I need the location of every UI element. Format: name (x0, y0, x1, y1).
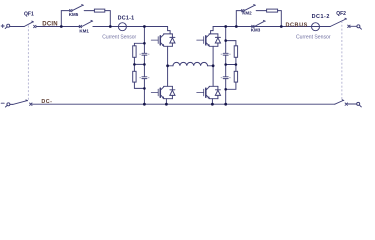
svg-text:KM1: KM1 (79, 29, 89, 34)
svg-text:DCBUS: DCBUS (286, 22, 308, 28)
svg-text:QF2: QF2 (336, 11, 346, 17)
svg-text:DC1-1: DC1-1 (118, 15, 135, 21)
svg-text:Current Sensor: Current Sensor (296, 35, 331, 41)
svg-text:DCIN: DCIN (42, 22, 57, 28)
svg-text:Current Sensor: Current Sensor (102, 35, 136, 41)
svg-text:QF1: QF1 (24, 12, 34, 18)
svg-text:DC1-2: DC1-2 (312, 14, 330, 20)
svg-text:KM3: KM3 (251, 27, 261, 32)
svg-text:DC-: DC- (41, 99, 52, 105)
svg-text:KM5: KM5 (69, 12, 79, 17)
svg-text:KM2: KM2 (242, 10, 252, 15)
